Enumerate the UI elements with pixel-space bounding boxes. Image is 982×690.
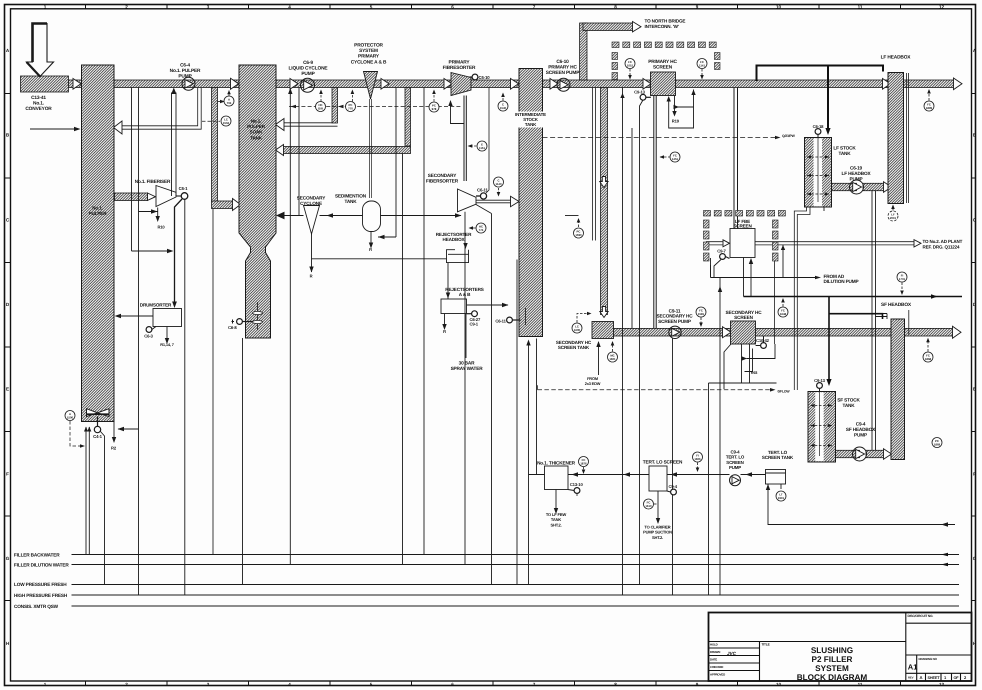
label C6-19	[842, 166, 872, 182]
cyclone Protector System Primary Cyclone A and B	[364, 72, 378, 100]
arrow drumsorter return into pulper	[115, 314, 122, 318]
valve C6-11 secondary fibersorter	[476, 193, 487, 199]
screen Secondary HC Screen	[731, 321, 756, 344]
wire C9-13 valve drop line x639.5	[640, 100, 644, 584]
wire fibresorter recycle loop	[451, 102, 465, 124]
svg-text:SCREEN: SCREEN	[653, 65, 673, 71]
svg-text:8: 8	[614, 682, 617, 687]
svg-text:PRIMARY HC: PRIMARY HC	[548, 65, 577, 71]
svg-text:FROM AD: FROM AD	[824, 274, 845, 279]
label TERT. LO	[762, 450, 794, 460]
wire drumsorter reject R1147	[166, 327, 168, 340]
label FROM	[585, 376, 601, 386]
headbox SF Headbox	[891, 319, 905, 460]
svg-text:2x3 EDW: 2x3 EDW	[585, 381, 601, 386]
instrument dash A1500 loop	[70, 421, 80, 446]
svg-text:APPROVED: APPROVED	[710, 673, 725, 677]
valve C4-1	[94, 416, 100, 432]
svg-text:SECONDARY: SECONDARY	[428, 173, 457, 178]
instrument dashed 0flow line y390	[538, 385, 771, 390]
svg-text:C6-4: C6-4	[180, 63, 190, 69]
svg-text:11: 11	[858, 682, 863, 687]
svg-text:3: 3	[207, 4, 210, 9]
instrument bubbles	[65, 59, 942, 510]
svg-text:CHECKED: CHECKED	[710, 665, 723, 669]
svg-text:C9-4: C9-4	[856, 422, 866, 427]
wire protector cyclone drop to sediment tank	[370, 99, 372, 198]
wire drumsorter to pulper return	[119, 315, 153, 317]
label R93	[751, 371, 758, 375]
label C6-3	[144, 333, 153, 338]
tank Secondary HC Screen Tank	[592, 322, 614, 339]
wire fiberiser reject R10	[157, 208, 159, 218]
svg-text:HEADBOX: HEADBOX	[443, 237, 466, 242]
arrow into tert tank up	[766, 484, 770, 490]
svg-text:1606: 1606	[694, 457, 701, 461]
svg-text:1504: 1504	[223, 121, 230, 125]
svg-text:1590: 1590	[575, 233, 582, 237]
svg-text:C6-10: C6-10	[556, 59, 569, 65]
wire soak tank feed elbow pipe	[212, 88, 218, 202]
agitator soak tank	[257, 302, 259, 330]
label No.1.	[247, 119, 266, 141]
svg-text:C13-10: C13-10	[570, 482, 584, 487]
wire line x517 overflow	[516, 260, 518, 585]
svg-text:C6-18: C6-18	[813, 124, 824, 129]
svg-text:774: 774	[479, 228, 484, 232]
arrow drumsorter feed left	[118, 427, 125, 431]
wire 0flow collector verticals below secondary area	[710, 265, 712, 278]
tank No.1 Pulper Soak Tank	[239, 65, 276, 338]
instrument FC 1015	[625, 59, 635, 80]
svg-text:SF STOCK: SF STOCK	[837, 398, 860, 403]
agitator SF stock tank	[811, 392, 833, 457]
svg-text:12: 12	[939, 682, 945, 687]
svg-text:770: 770	[348, 107, 353, 111]
svg-text:C6-19: C6-19	[850, 166, 863, 171]
svg-text:5: 5	[370, 4, 373, 9]
svg-text:SHT.2.: SHT.2.	[550, 522, 561, 527]
svg-text:SCREEN PUMP: SCREEN PUMP	[546, 70, 580, 76]
tank LF Stock Tank	[805, 138, 832, 208]
svg-text:LF STOCK: LF STOCK	[833, 146, 856, 151]
wire primary fibresorter drop to secondary	[464, 96, 466, 182]
wire line x299	[298, 88, 300, 216]
wire secondary screen R93 loop	[745, 344, 776, 372]
svg-text:PUMP: PUMP	[729, 465, 741, 470]
label REJECTSORTER	[436, 232, 472, 242]
valve C9-7	[720, 254, 730, 260]
wire secondary cyclone inlet segment	[320, 215, 462, 217]
svg-text:1731: 1731	[899, 277, 906, 281]
wire pulper drain to LPF	[101, 432, 105, 585]
valve C6-1	[176, 193, 188, 200]
arrow R10 down	[156, 216, 160, 222]
wire LF headbox right standpipe	[907, 73, 909, 203]
svg-text:CONVEYOR: CONVEYOR	[25, 106, 52, 112]
instrument HC 774	[469, 223, 487, 233]
wire SF stock tank to SF headbox pump pipe	[836, 450, 860, 457]
wire line x424 pipe to backwater	[423, 88, 425, 555]
svg-text:C6-10: C6-10	[479, 75, 491, 80]
wire line x491.5 fibersorter reject to LPF	[491, 214, 493, 585]
label PRIMARY	[443, 60, 476, 72]
svg-text:FIBERSORTER: FIBERSORTER	[426, 178, 459, 183]
title block outer	[709, 613, 972, 682]
instrument FC 1451	[660, 152, 681, 162]
svg-text:TO No.2. AD PLANT: TO No.2. AD PLANT	[923, 239, 963, 244]
label SECONDARY HC	[556, 340, 592, 350]
drumsorter box	[153, 309, 182, 327]
wire soak feed drop continuation	[212, 209, 214, 555]
pulper agitator	[87, 409, 110, 417]
svg-text:C6-11: C6-11	[477, 188, 488, 193]
instrument LF 2015	[888, 205, 898, 222]
label C9-7	[717, 248, 726, 253]
svg-text:1015: 1015	[627, 64, 634, 68]
valve C6-3	[146, 327, 156, 333]
pump C6-4 No.1 Pulper Pump	[182, 77, 195, 90]
svg-text:C9-13: C9-13	[814, 378, 825, 383]
svg-text:10: 10	[776, 4, 782, 9]
wire dark SF headbox feed elbow	[829, 314, 883, 319]
instrument LT 1915	[776, 491, 786, 501]
instrument LC 1600	[572, 312, 592, 333]
wire thickener C13-10 drop	[576, 494, 578, 497]
svg-text:TANK: TANK	[525, 122, 537, 127]
rejectsorters A and B box	[441, 299, 467, 314]
label SEDIMENTION	[335, 194, 367, 204]
instrument FC 1581	[696, 307, 706, 327]
svg-text:DISC/CIRCUIT NO.: DISC/CIRCUIT NO.	[908, 614, 934, 618]
label REJECTSORTERS	[445, 287, 483, 297]
agitator intermediate tank	[525, 308, 527, 325]
agitator LF stock tank	[807, 135, 829, 202]
wire tert lo tank instrument drop	[780, 484, 782, 489]
label C6-9	[289, 60, 329, 77]
arrow tert tank supply left	[941, 522, 948, 526]
label LF FBE	[733, 219, 752, 229]
svg-text:REF. DRG. Q11224: REF. DRG. Q11224	[923, 244, 961, 249]
svg-text:PUMP: PUMP	[301, 71, 315, 77]
arrow rejectsorters to tank right	[502, 303, 509, 307]
wire secondary fibersorter discharge line	[476, 200, 512, 203]
svg-text:OF: OF	[954, 676, 960, 680]
svg-text:CYCLONE: CYCLONE	[300, 201, 322, 206]
label C6-10	[546, 59, 580, 76]
valve C9-4 tert	[667, 489, 676, 495]
svg-text:P2 FILLER: P2 FILLER	[812, 655, 853, 664]
arrow thickener outlet down	[554, 508, 558, 514]
svg-text:704: 704	[227, 101, 232, 105]
svg-text:1876: 1876	[580, 462, 587, 466]
pump C9-11 Secondary HC Screen Pump	[669, 326, 681, 338]
label SF HEADBOX	[881, 302, 912, 308]
wire C6-1 valve drop to LPF	[184, 199, 186, 595]
conveyor C13-41	[21, 76, 69, 92]
pipe hollow arrows on main run	[73, 22, 962, 460]
zone numbers bottom	[44, 682, 945, 687]
label SF STOCK	[837, 398, 860, 408]
svg-text:9: 9	[696, 4, 699, 9]
svg-text:1581: 1581	[698, 312, 705, 316]
valve C9-13 primary screen	[640, 94, 651, 100]
svg-text:SHEET: SHEET	[928, 676, 941, 680]
valve C6-8 soak tank	[232, 319, 255, 325]
zone letters left	[6, 48, 10, 646]
arrow sediment reject R down	[369, 243, 373, 249]
wire rejectsorters discharge to intermediate tank	[467, 304, 509, 306]
utility line low pressure fresh	[72, 584, 960, 586]
svg-text:5: 5	[370, 682, 373, 687]
svg-text:SOAK: SOAK	[250, 130, 264, 135]
svg-text:R1,14, 7: R1,14, 7	[160, 342, 174, 347]
label INTERMEDIATE	[515, 112, 546, 128]
small arrows various	[74, 127, 948, 527]
instrument PC 1869	[932, 438, 942, 448]
svg-text:PUMP: PUMP	[178, 74, 192, 80]
zone letters right	[973, 48, 977, 646]
wire C9-7 drop and from AD dilution line	[711, 258, 722, 278]
wire from 2x3 EDW feed	[598, 342, 600, 375]
svg-text:1540: 1540	[500, 106, 507, 110]
svg-text:SCREEN: SCREEN	[733, 224, 752, 229]
svg-text:JVC: JVC	[727, 651, 737, 656]
wire LF stock tank to LF headbox pump pipe	[832, 183, 857, 190]
wire LF FBE screen feed risers	[734, 88, 738, 229]
svg-text:Q/23/PW: Q/23/PW	[782, 134, 796, 138]
svg-text:C6-8: C6-8	[228, 325, 237, 330]
label C9-4	[669, 484, 678, 489]
svg-text:SCREEN PUMP: SCREEN PUMP	[658, 319, 691, 324]
svg-text:LF HEADBOX: LF HEADBOX	[881, 55, 912, 61]
svg-text:C4-1: C4-1	[93, 434, 102, 439]
label DRUMSORTER	[140, 303, 172, 308]
label FROM AD	[824, 274, 859, 284]
label R	[443, 329, 446, 334]
wire line x465 fibersorter rejects	[464, 212, 466, 565]
rejectsorter headbox box	[447, 250, 469, 263]
instrument FC 1648	[778, 298, 788, 317]
arrow into rejectsorters down	[446, 293, 450, 299]
arrow into drumsorter top	[172, 302, 177, 309]
wire C6-1 to drumsorter dark line	[175, 199, 183, 304]
instrument FC 1610	[644, 499, 658, 509]
svg-text:A & B: A & B	[459, 292, 471, 297]
wire line x396 pipe down to sediment drain	[395, 88, 397, 238]
arrow clarifier outlet down	[656, 518, 660, 524]
instrument PC 1590	[574, 218, 584, 238]
svg-text:11: 11	[858, 4, 863, 9]
label R1,14, 7	[160, 342, 174, 347]
instrument dash LC1504 to recycle	[202, 120, 220, 122]
svg-text:SYSTEM: SYSTEM	[815, 664, 849, 673]
svg-text:TO NORTH BRIDGE: TO NORTH BRIDGE	[645, 19, 686, 24]
wire thick LF headbox bypass top	[757, 66, 884, 82]
svg-text:3: 3	[207, 682, 210, 687]
wire intermediate tank to thickener riser	[529, 339, 537, 585]
svg-text:SEDIMENTION: SEDIMENTION	[335, 194, 367, 199]
wire drop pipe to secondary HC screen tank	[601, 88, 608, 315]
label C6-27	[470, 317, 481, 327]
svg-text:SLUSHING: SLUSHING	[811, 646, 853, 655]
wire thickener outlet to LF FBW	[555, 490, 557, 510]
future pipe dashed hatch rectangle LF FBE screen	[704, 211, 786, 262]
svg-text:F: F	[973, 471, 976, 476]
valve C13-10	[568, 488, 580, 494]
wire tert lo screen reject to clarifier	[657, 491, 659, 519]
label C9-4	[846, 422, 876, 438]
arrow cyclone reject R down	[309, 267, 313, 273]
svg-text:978: 978	[432, 107, 437, 111]
svg-text:1915: 1915	[778, 496, 785, 500]
tank Intermediate Stock Tank	[519, 69, 543, 337]
pump C9-4 Tert LO Screen Pump	[730, 475, 741, 486]
wire line x131.5 from main pipe	[131, 88, 133, 252]
thickener No.1 Thickener box	[545, 466, 569, 490]
svg-text:1: 1	[44, 4, 47, 9]
svg-text:No.1.: No.1.	[33, 100, 44, 106]
instrument HC O/R	[316, 102, 326, 112]
svg-text:6: 6	[451, 4, 454, 9]
svg-text:1451: 1451	[672, 157, 679, 161]
arrows pulper bottom up pair	[84, 427, 91, 432]
svg-text:1601: 1601	[609, 357, 616, 361]
title block dividers	[709, 613, 972, 682]
svg-text:E: E	[6, 387, 9, 392]
svg-text:C6-3: C6-3	[144, 333, 153, 338]
infeed big arrow	[27, 24, 54, 77]
label R2	[111, 445, 117, 450]
svg-text:LIQUID CYCLONE: LIQUID CYCLONE	[289, 66, 329, 72]
label 0/FLOW	[778, 389, 791, 393]
svg-text:No.1. PULPER: No.1. PULPER	[170, 68, 201, 74]
wire pump C6-4 recycle white pipe	[122, 88, 201, 129]
svg-text:E: E	[973, 387, 976, 392]
wire x592-596 double from pipe	[593, 88, 596, 241]
pump C6-10 Primary HC Screen Pump	[557, 78, 570, 91]
wire to AD plant line double	[706, 242, 914, 245]
svg-text:R: R	[369, 247, 372, 252]
svg-text:1141: 1141	[699, 64, 706, 68]
arrow into pulper left y129	[74, 127, 81, 131]
svg-text:C9-13: C9-13	[634, 89, 645, 94]
svg-text:C6-1: C6-1	[179, 186, 188, 191]
wire LF headbox to SF pump double drop	[872, 191, 887, 450]
svg-text:No.1.: No.1.	[92, 206, 102, 211]
wire main stock pipe horizontal run	[69, 80, 955, 88]
svg-text:C13-41: C13-41	[31, 95, 46, 101]
label SECONDARY HC	[726, 310, 763, 320]
wire y383 collector	[709, 383, 777, 595]
screen Tert LO Screen box	[649, 466, 667, 491]
label C10-42	[756, 338, 770, 343]
svg-text:7: 7	[533, 682, 536, 687]
svg-text:G: G	[973, 556, 977, 561]
svg-text:1600: 1600	[574, 328, 581, 332]
wire tert lo screen tank drop and supply	[768, 484, 955, 525]
tank No.1 Pulper	[82, 65, 115, 422]
wire recycle pipe to soak tank lower	[405, 88, 411, 147]
svg-text:No.1. FIBERISER: No.1. FIBERISER	[135, 179, 171, 184]
svg-text:FILLER BACKWATER: FILLER BACKWATER	[14, 553, 60, 558]
instrument A 704	[218, 101, 221, 103]
label C6-11	[477, 188, 488, 193]
svg-text:4: 4	[288, 4, 291, 9]
cyclone Secondary Cyclone	[304, 206, 320, 235]
wire fibersorter reject diagonal	[476, 205, 492, 214]
label PROTECTOR	[351, 43, 387, 66]
svg-text:0/FLOW: 0/FLOW	[778, 389, 791, 393]
wire soak return line y215	[283, 215, 304, 217]
svg-text:O/R: O/R	[318, 107, 323, 111]
arrow secondary cyclone inlet left	[327, 213, 334, 217]
svg-text:BLOCK DIAGRAM: BLOCK DIAGRAM	[797, 673, 868, 682]
pump C6-19 LF Headbox Pump	[850, 180, 864, 194]
label C9-4	[726, 450, 745, 471]
svg-text:SF HEADBOX: SF HEADBOX	[846, 427, 876, 432]
label C4-1	[93, 434, 102, 439]
svg-text:DATE: DATE	[710, 658, 717, 662]
svg-text:C6-9: C6-9	[303, 60, 313, 66]
label LF STOCK	[833, 146, 856, 156]
svg-text:R2: R2	[111, 445, 117, 450]
svg-text:1869: 1869	[934, 443, 941, 447]
instrument C 1140	[494, 177, 504, 197]
wire pulper infeed line left	[30, 128, 78, 130]
svg-text:TITLE: TITLE	[762, 643, 770, 647]
pump C9-4 SF Headbox Pump	[853, 447, 867, 461]
svg-text:R: R	[310, 274, 313, 279]
wire rejectsorters reject R	[444, 314, 446, 326]
wire thickener suction line y474	[529, 474, 766, 476]
label C9-13	[814, 378, 825, 383]
svg-text:FILLER DILUTION WATER: FILLER DILUTION WATER	[14, 563, 69, 568]
svg-text:PUMP: PUMP	[850, 176, 863, 181]
svg-text:1151: 1151	[479, 146, 486, 150]
svg-text:SCREEN TANK: SCREEN TANK	[762, 455, 794, 460]
wire secondary HC pipe horizontal run	[611, 328, 955, 336]
label C6-1	[179, 186, 188, 191]
label TO No.2. AD PLANT	[923, 239, 963, 249]
wire thick drop into LF stock tank	[827, 66, 829, 130]
svg-text:DILUTION PUMP: DILUTION PUMP	[824, 279, 859, 284]
svg-text:C9-7: C9-7	[717, 248, 726, 253]
instrument FC 1899	[924, 89, 934, 111]
svg-text:No.1.: No.1.	[251, 119, 261, 124]
wire pump C9-11 drop	[672, 339, 674, 596]
svg-text:TERT. LO SCREEN: TERT. LO SCREEN	[643, 460, 683, 465]
wire line x139 from main pipe to HPF	[138, 88, 140, 596]
label No.1. THICKENER	[537, 461, 576, 466]
wire sediment tank outlet R	[370, 232, 372, 244]
screen LF FBE Screen box	[730, 229, 755, 258]
wire drumsorter return feed line	[118, 428, 139, 430]
wire LF stock tank overflow to AD line	[794, 207, 810, 390]
svg-text:2: 2	[125, 4, 128, 9]
svg-text:9: 9	[696, 682, 699, 687]
svg-text:4: 4	[288, 682, 291, 687]
wire dashed rect column to R93 return	[774, 261, 776, 344]
wire secondary cyclone reject R	[311, 234, 313, 272]
svg-text:REV: REV	[908, 676, 914, 680]
svg-text:TANK: TANK	[344, 199, 357, 204]
svg-text:INTERCONN. 'W': INTERCONN. 'W'	[645, 24, 679, 29]
svg-text:R: R	[443, 329, 446, 334]
wire secondary cyclone collector to rejectsorter headbox	[312, 258, 447, 260]
wire 30 bar spray water feed	[465, 314, 467, 359]
wire line x402.5 riser drop	[402, 154, 404, 565]
